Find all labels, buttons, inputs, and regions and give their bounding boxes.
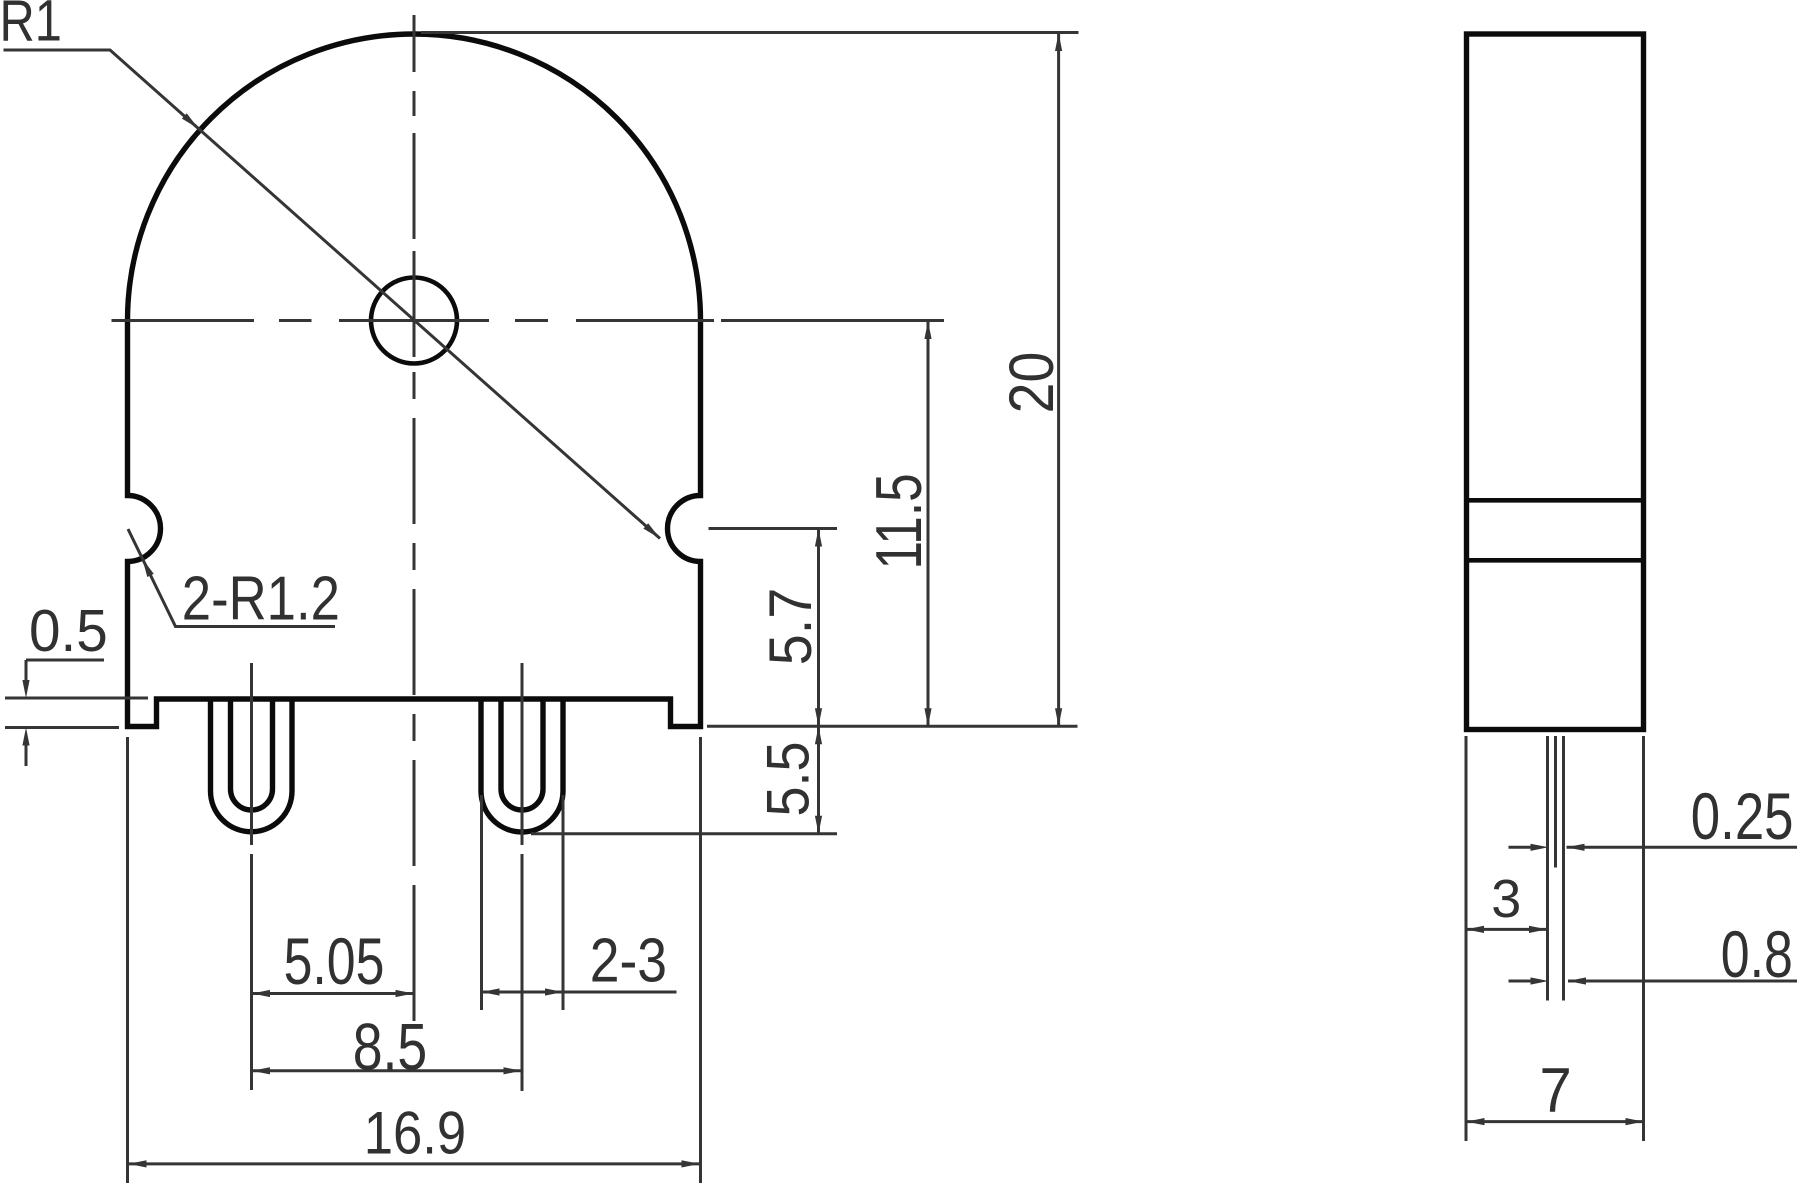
svg-text:3: 3 — [1491, 869, 1521, 929]
top extension line — [421, 31, 1079, 34]
dimension 8.5 — [252, 1069, 522, 1072]
horizontal centerline — [112, 319, 945, 322]
side view extension lines — [1465, 736, 1468, 1141]
svg-text:0.8: 0.8 — [1721, 917, 1793, 991]
svg-text:11.5: 11.5 — [863, 473, 935, 569]
side view outline — [1467, 34, 1644, 730]
pin 1 inner U — [231, 699, 273, 810]
dimension 16.9 — [126, 737, 129, 1183]
dimension 11.5 — [927, 321, 930, 726]
svg-text:0.25: 0.25 — [1691, 779, 1794, 853]
pin slot 2 outer U — [481, 699, 563, 832]
bottom-right extension line — [707, 725, 1078, 728]
pin slot 1 outer U — [211, 699, 293, 832]
dimension 7 — [1466, 1120, 1644, 1123]
side view groove line 1 — [1467, 498, 1644, 503]
dimension 0.25 — [1509, 846, 1532, 849]
side view pin lines — [1546, 736, 1549, 1001]
dimension 0.8 — [1509, 980, 1532, 983]
svg-text:0.5: 0.5 — [29, 599, 108, 664]
svg-text:7: 7 — [1540, 1055, 1572, 1126]
dimension 5.5 — [817, 726, 820, 834]
notch extension line — [709, 527, 838, 530]
slot 2 centerline — [521, 663, 524, 1091]
dimension 5.7 — [817, 529, 820, 727]
dimension 2-3 — [480, 795, 483, 1010]
svg-text:R1: R1 — [0, 0, 62, 53]
side view groove line 2 — [1467, 558, 1644, 563]
svg-text:8.5: 8.5 — [353, 1010, 428, 1084]
front view body outline — [128, 34, 701, 727]
R1 leader — [4, 50, 661, 539]
svg-text:5.7: 5.7 — [758, 588, 824, 666]
svg-text:5.5: 5.5 — [755, 741, 822, 816]
vertical centerline — [413, 15, 416, 1021]
svg-text:20: 20 — [995, 352, 1066, 414]
slot 1 centerline — [250, 663, 253, 1090]
slot-bottom extension line — [531, 832, 837, 835]
dimension 20 — [1057, 33, 1060, 726]
dimension 5.05 — [252, 992, 414, 995]
pin 2 inner U — [501, 699, 543, 810]
center hole — [371, 278, 457, 364]
svg-text:2-R1.2: 2-R1.2 — [182, 565, 340, 634]
svg-text:2-3: 2-3 — [590, 927, 667, 996]
dimension 3 — [1466, 928, 1547, 931]
svg-text:16.9: 16.9 — [364, 1099, 466, 1166]
svg-text:5.05: 5.05 — [284, 924, 385, 999]
2-R1.2 leader — [128, 529, 335, 627]
